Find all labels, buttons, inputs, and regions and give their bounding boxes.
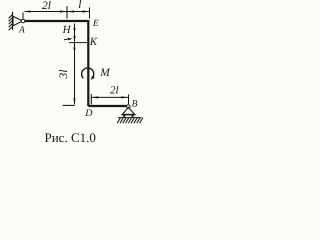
svg-text:B: B [132,99,138,109]
svg-text:Рис. С1.0: Рис. С1.0 [45,130,96,145]
svg-text:2l: 2l [110,84,119,96]
svg-text:A: A [18,26,25,36]
svg-text:M: M [99,67,111,79]
svg-text:H: H [62,24,72,36]
svg-text:K: K [89,36,98,48]
svg-text:l: l [78,0,81,11]
svg-text:2l: 2l [42,0,51,12]
svg-text:E: E [92,19,99,29]
svg-text:D: D [84,108,93,119]
svg-text:3l: 3l [58,70,70,80]
